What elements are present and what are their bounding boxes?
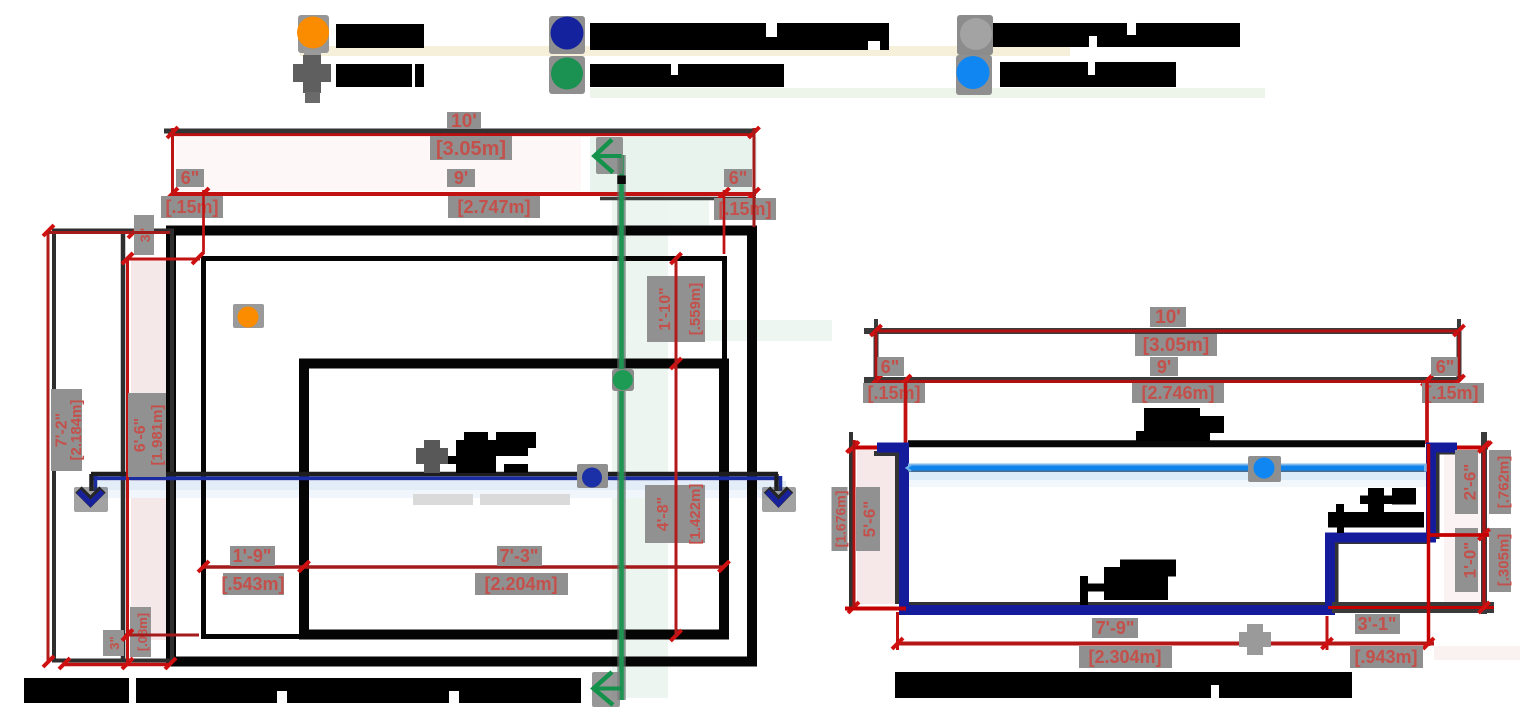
tint: pink right wall area — [1444, 452, 1480, 604]
tint: teal column along green line — [612, 193, 668, 698]
svg-text:[1.422m]: [1.422m] — [687, 484, 704, 545]
legend label: fitting (redacted) — [993, 23, 1240, 47]
section line left elbow — [89, 474, 94, 491]
9ft ticks — [871, 375, 882, 386]
deck line — [908, 440, 1425, 447]
svg-text:7'-3": 7'-3" — [500, 546, 539, 566]
green survey line — [617, 155, 626, 700]
section cut line (navy) — [91, 476, 781, 480]
step level red divider — [1429, 533, 1489, 537]
dim text 6in right — [724, 169, 752, 187]
top-left small dim line b — [127, 258, 200, 261]
top-left small dim line a — [48, 231, 170, 234]
green arrow bottom — [592, 672, 620, 707]
bottom-left small dim line — [64, 663, 171, 667]
legend marker: fitting (light gray) — [957, 15, 993, 55]
dim 9ft ticks — [167, 188, 178, 199]
section extension overlays — [904, 381, 908, 444]
dim text 6in left — [176, 169, 204, 187]
tint: pink column left — [131, 260, 170, 640]
tint: teal streak mid — [620, 320, 832, 341]
svg-text:[.943m]: [.943m] — [1354, 647, 1417, 667]
svg-text:7'-9": 7'-9" — [1096, 618, 1135, 638]
right outer wall line — [1481, 432, 1487, 614]
green arrow top — [596, 137, 623, 174]
svg-text:[3.05m]: [3.05m] — [436, 138, 506, 160]
depth text (redacted) — [464, 432, 488, 441]
left floor red tick line — [845, 607, 906, 611]
svg-text:[2.304m]: [2.304m] — [1088, 647, 1161, 667]
right vertical dim — [675, 259, 678, 636]
section dim text 10ft — [1150, 307, 1186, 327]
legend marker: water level (dodger blue) — [956, 55, 992, 95]
legend label: skimmer line (redacted) — [590, 23, 889, 50]
svg-text:[2.746m]: [2.746m] — [1141, 383, 1214, 403]
section caption (redacted) — [895, 672, 1352, 698]
svg-text:[.15m]: [.15m] — [1425, 383, 1478, 403]
legend label: water level (redacted) — [1000, 62, 1176, 87]
legend label: ledge (redacted) — [590, 64, 784, 87]
svg-text:1'-10": 1'-10" — [657, 287, 674, 330]
svg-text:[.305m]: [.305m] — [1496, 534, 1513, 587]
floor level right lines — [1332, 602, 1494, 613]
ghost text artifacts — [413, 494, 473, 505]
right vertical dim overlay — [675, 259, 678, 636]
svg-text:6": 6" — [729, 168, 748, 188]
bottom dim texts — [1092, 618, 1138, 638]
depth plus marker (section) — [1247, 624, 1263, 655]
svg-text:3'-1": 3'-1" — [1358, 614, 1397, 634]
svg-text:4'-8": 4'-8" — [655, 497, 672, 532]
tint: light blue band under section line — [91, 481, 786, 490]
extension overlays over labels — [202, 190, 205, 254]
legend light green band — [590, 88, 1265, 98]
depth plus marker (plan) — [424, 440, 440, 473]
section dim 10ft line — [864, 328, 1459, 334]
bottom-left small dim line b — [125, 634, 199, 637]
tint: pink band between top dim lines — [176, 137, 581, 191]
section cut line (dark) — [91, 472, 778, 477]
svg-text:[2.184m]: [2.184m] — [68, 400, 85, 461]
svg-text:9': 9' — [454, 168, 468, 188]
legend marker: skimmer (navy) — [549, 16, 585, 54]
dim text 9ft — [447, 169, 475, 187]
waterline — [908, 464, 1428, 467]
svg-text:[2.747m]: [2.747m] — [457, 197, 530, 217]
tint: light blue under waterline — [908, 471, 1426, 480]
left vertical dim B — [126, 259, 129, 662]
left outer wall line — [849, 432, 853, 610]
deck title (redacted) — [1144, 408, 1200, 418]
svg-text:1'-9": 1'-9" — [233, 546, 272, 566]
black tick on green line — [617, 176, 626, 185]
svg-text:6'-6": 6'-6" — [132, 418, 149, 453]
tint: pink streak bottom right — [1434, 646, 1520, 660]
left rotated depth text — [832, 487, 848, 551]
9ft extensions — [904, 381, 908, 444]
section arrow left — [74, 487, 108, 512]
svg-text:3": 3" — [137, 228, 153, 242]
dim 9ft extensions — [202, 190, 205, 254]
top-left rotated small text — [134, 215, 154, 255]
plan caption (redacted) — [24, 678, 581, 703]
svg-text:3": 3" — [107, 636, 122, 649]
svg-text:10': 10' — [1155, 307, 1181, 328]
section dim text 6in left — [876, 357, 904, 376]
section dim text 9ft — [1150, 357, 1178, 376]
bottom-left rotated small text — [103, 630, 124, 656]
svg-text:[.762m]: [.762m] — [1496, 456, 1513, 509]
bench divider — [121, 230, 126, 661]
svg-text:[3.05m]: [3.05m] — [1143, 335, 1210, 356]
left vertical dim A — [47, 231, 50, 662]
bottom plan dim line — [204, 565, 725, 569]
tint: teal band top right — [590, 137, 757, 193]
svg-text:10': 10' — [451, 111, 477, 132]
skimmer marker dot (plan) — [577, 464, 608, 488]
svg-text:2'-6": 2'-6" — [1461, 464, 1480, 501]
10ft end verticals — [874, 331, 879, 381]
section arrow right — [762, 487, 796, 512]
svg-text:6": 6" — [181, 168, 200, 188]
dim 10ft right extension — [753, 128, 756, 227]
svg-text:[.15m]: [.15m] — [867, 383, 920, 403]
section dim 9ft line — [864, 377, 1459, 383]
tint: pink cavity left wall — [857, 450, 896, 604]
pool shell navy profile — [877, 448, 1457, 611]
orange return marker — [233, 304, 264, 328]
water level marker dot — [1248, 456, 1281, 482]
svg-text:6": 6" — [1436, 357, 1455, 377]
deep end rectangle — [304, 364, 724, 635]
legend marker: return (orange) — [297, 15, 329, 57]
dim 10ft ticks — [167, 127, 178, 138]
right outer wall line overlay — [1482, 446, 1485, 610]
svg-text:[.15m]: [.15m] — [718, 199, 771, 219]
legend label: depth (redacted) — [336, 64, 412, 87]
dim 9ft line — [171, 192, 756, 196]
legend label: return (redacted) — [336, 24, 424, 48]
section dim text 6in right — [1431, 357, 1459, 376]
bottom section dim line — [898, 642, 1435, 646]
pool inner (waterline) rectangle — [204, 259, 725, 637]
svg-text:[.559m]: [.559m] — [687, 283, 704, 336]
dim 10ft line — [164, 129, 754, 134]
svg-text:[2.204m]: [2.204m] — [484, 574, 557, 594]
step level red divider overlay — [1429, 533, 1489, 537]
svg-text:[.08m]: [.08m] — [135, 613, 150, 651]
step depth text (redacted) — [1360, 496, 1416, 505]
dim 10ft left extension — [171, 128, 174, 195]
red lip dims — [850, 446, 877, 450]
10ft ticks — [871, 325, 882, 336]
svg-text:5'-6": 5'-6" — [860, 501, 879, 538]
svg-text:[.15m]: [.15m] — [165, 197, 218, 217]
left bench structure — [54, 231, 172, 661]
svg-text:9': 9' — [1157, 357, 1171, 377]
pool depth text (redacted) — [1120, 560, 1176, 577]
legend marker: depth (gray plus) — [293, 55, 331, 103]
svg-text:[1.676m]: [1.676m] — [833, 491, 849, 548]
svg-text:1'-0": 1'-0" — [1461, 542, 1480, 579]
svg-text:[.543m]: [.543m] — [221, 574, 284, 594]
section line right elbow — [774, 474, 779, 491]
dim text 10ft — [447, 112, 481, 129]
svg-text:[1.981m]: [1.981m] — [149, 405, 166, 466]
left outer wall line overlay — [853, 440, 856, 608]
svg-text:6": 6" — [881, 357, 900, 377]
pool outer rectangle — [171, 231, 752, 662]
red vertical over right wall — [1427, 444, 1431, 646]
small dim overlays — [48, 231, 170, 234]
green marker dot — [612, 369, 634, 391]
pool shell gray outline — [895, 450, 900, 604]
legend marker: ledge (green) — [549, 56, 585, 94]
right rotated dim texts — [1455, 450, 1478, 514]
legend cream band — [300, 46, 1070, 56]
